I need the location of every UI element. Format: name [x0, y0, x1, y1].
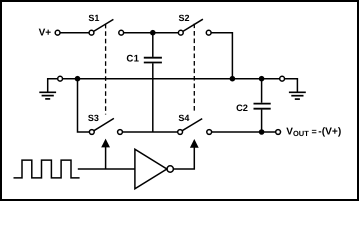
- arrow to S4 control: [190, 139, 199, 148]
- wire C2 bottom: [261, 110, 263, 132]
- node S2 bus junction: [230, 76, 236, 82]
- wire clock to inverter: [78, 168, 135, 170]
- terminal V+: [55, 30, 60, 35]
- switch S4: [178, 113, 212, 134]
- wire S2 to ground bus: [211, 33, 232, 79]
- left ground stub wire: [48, 79, 58, 93]
- ground bus wire: [63, 78, 280, 80]
- right ground symbol: [289, 92, 306, 99]
- capacitor C2: [236, 103, 271, 113]
- left ground symbol: [39, 92, 56, 99]
- arrow to S3 control: [101, 139, 110, 169]
- svg-text:S1: S1: [88, 13, 99, 23]
- capacitor C1: [126, 54, 161, 65]
- svg-text:S3: S3: [88, 113, 99, 123]
- switch S3: [88, 113, 123, 134]
- node C2 bottom junction: [259, 129, 265, 135]
- wire inverter to S4 control arrow: [174, 147, 195, 169]
- wire S1 to S2: [124, 32, 179, 34]
- svg-text:C2: C2: [236, 103, 248, 113]
- svg-text:C1: C1: [126, 54, 139, 65]
- svg-text:V+: V+: [39, 27, 52, 38]
- switch S1: [88, 13, 123, 35]
- right ground stub wire: [285, 79, 298, 93]
- wire S3 to S4: [122, 131, 177, 133]
- wire S4 to VOUT: [212, 131, 276, 133]
- svg-text:S4: S4: [178, 113, 189, 123]
- terminal VOUT: [276, 130, 281, 135]
- svg-text:S2: S2: [179, 13, 190, 23]
- node C1 top junction: [150, 30, 156, 36]
- inverter U1: [135, 149, 174, 189]
- node C2 top junction: [259, 76, 265, 82]
- control dashed line S2-S4: [193, 24, 195, 114]
- left ground terminal circle: [58, 76, 63, 81]
- control dashed line S1-S3: [105, 24, 107, 115]
- wire V+ to S1: [60, 32, 89, 34]
- node bus left junction: [75, 76, 81, 82]
- wire junction to C1: [152, 33, 154, 57]
- switch S2: [178, 13, 211, 35]
- wire bus to S3: [78, 79, 90, 132]
- right ground terminal circle: [280, 76, 285, 81]
- clock square wave: [14, 160, 80, 178]
- wire C2 top: [261, 79, 263, 103]
- wire C1 bottom to S3/S4 node: [152, 63, 154, 132]
